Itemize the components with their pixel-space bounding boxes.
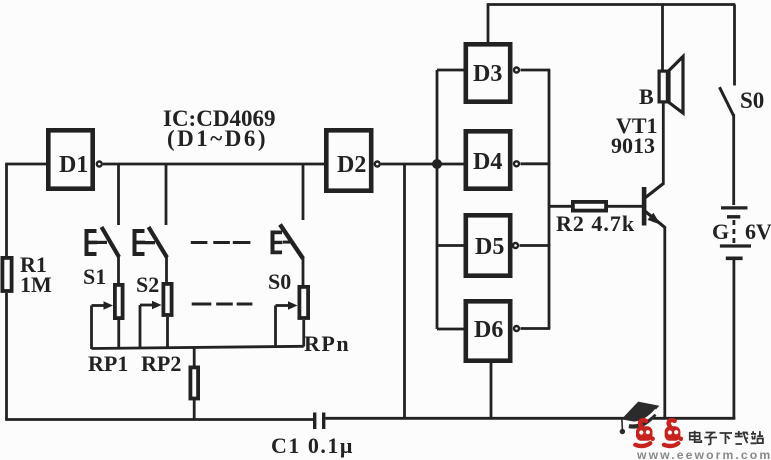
wire R2 left xyxy=(549,205,572,208)
wire D2 out xyxy=(381,163,464,166)
watermark cap xyxy=(620,402,660,435)
svg-text:9013: 9013 xyxy=(611,133,655,158)
wire top rail xyxy=(487,3,736,6)
switch S2 xyxy=(133,227,168,297)
wire D3 top xyxy=(487,5,490,45)
wire drop to S2 xyxy=(165,164,168,225)
wire stub D5 in xyxy=(437,244,464,247)
resistor R2 xyxy=(556,202,635,236)
svg-text:S0: S0 xyxy=(268,269,291,294)
wire D1 out to D2 xyxy=(103,163,324,166)
wire D6 bottom xyxy=(490,362,493,418)
svg-text:D6: D6 xyxy=(474,317,503,343)
svg-text:D3: D3 xyxy=(473,61,502,87)
svg-text:D4: D4 xyxy=(473,149,502,175)
svg-text:RP1: RP1 xyxy=(88,351,128,376)
svg-text:B: B xyxy=(639,84,654,109)
wire xyxy=(5,293,8,420)
switch S0 xyxy=(268,225,303,295)
potentiometer RP2 xyxy=(140,284,181,376)
wire bottom rail left xyxy=(5,418,314,421)
wire emitter down xyxy=(663,227,666,420)
dashed line lower xyxy=(192,303,253,306)
wire collector up xyxy=(662,104,665,185)
speaker B xyxy=(639,57,683,114)
wire stub D3 in xyxy=(437,69,464,72)
svg-text:6V: 6V xyxy=(745,219,771,244)
svg-text:S0: S0 xyxy=(740,88,764,113)
wire pot bus xyxy=(92,346,304,348)
inverter D2 xyxy=(326,130,380,190)
svg-text:www.eeworm.com: www.eeworm.com xyxy=(636,448,771,460)
svg-text:C1 0.1μ: C1 0.1μ xyxy=(271,433,354,458)
watermark bug 1 xyxy=(635,420,655,446)
svg-text:RP2: RP2 xyxy=(141,351,181,376)
svg-text:1M: 1M xyxy=(20,272,52,297)
dashed line upper xyxy=(191,241,251,244)
wire output bus xyxy=(548,70,551,329)
wire battery down xyxy=(733,260,736,419)
svg-text:G: G xyxy=(712,219,729,244)
switch S0 right xyxy=(720,5,765,206)
svg-text:R2 4.7k: R2 4.7k xyxy=(556,211,635,236)
wire speaker top xyxy=(661,5,664,71)
svg-text:S1: S1 xyxy=(83,264,106,289)
svg-text:D5: D5 xyxy=(475,234,504,260)
svg-text:RPn: RPn xyxy=(304,331,350,356)
wire xyxy=(5,163,46,166)
inverter D5 xyxy=(466,215,518,275)
wire D3 out xyxy=(521,69,551,72)
wire input bus xyxy=(436,70,439,329)
wire bottom rail right xyxy=(325,417,735,420)
switch S1 xyxy=(83,227,119,289)
inverter D4 xyxy=(466,131,519,188)
wire drop to C1 xyxy=(403,164,406,419)
transistor VT1 xyxy=(611,113,665,228)
potentiometer RP1 xyxy=(88,285,128,376)
battery G xyxy=(712,208,771,258)
resistor R1 xyxy=(2,258,11,291)
svg-text:D1: D1 xyxy=(59,152,88,178)
svg-text:D2: D2 xyxy=(337,152,366,178)
inverter D1 xyxy=(48,130,102,188)
watermark text dianzi xyxy=(690,431,763,445)
watermark bug 2 xyxy=(664,420,683,446)
resistor (pot chain to rail) xyxy=(190,347,198,420)
svg-text:(D1~D6): (D1~D6) xyxy=(167,126,268,151)
wire D5 out xyxy=(520,244,551,247)
capacitor C1 xyxy=(271,413,354,459)
WIRES-LEFT xyxy=(2,164,52,420)
wire stub D6 in xyxy=(437,328,464,331)
inverter D3 xyxy=(466,44,519,101)
inverter D6 xyxy=(466,301,519,360)
wire D4 out xyxy=(521,162,551,165)
wire xyxy=(5,164,8,256)
wire drop to S1 xyxy=(117,164,120,225)
wire D6 out xyxy=(521,327,551,330)
wire drop to S0 xyxy=(302,164,305,220)
potentiometer RPn xyxy=(276,287,351,356)
node junction xyxy=(432,159,442,169)
svg-text:S2: S2 xyxy=(136,272,159,297)
wire R2 right xyxy=(607,205,642,208)
